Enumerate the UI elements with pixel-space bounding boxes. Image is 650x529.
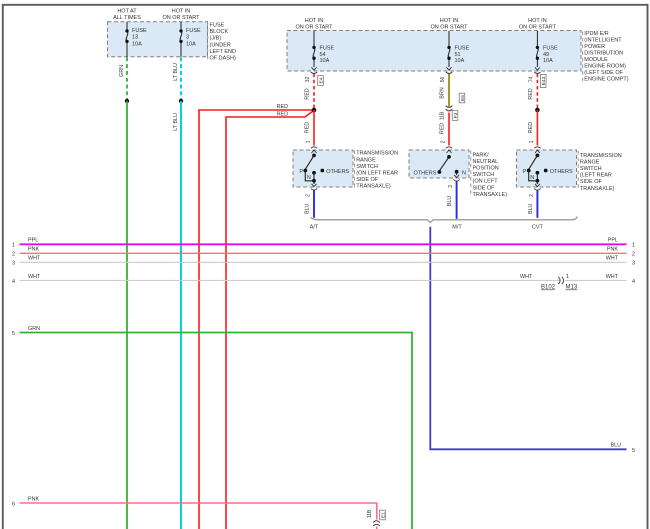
svg-text:(LEFT SIDE OF: (LEFT SIDE OF — [584, 70, 623, 76]
svg-text:TRANSAXLE): TRANSAXLE) — [580, 186, 615, 192]
svg-text:OF DASH): OF DASH) — [210, 56, 236, 62]
svg-text:N: N — [462, 170, 466, 176]
connector B102/M13 on wire 4 — [558, 277, 563, 284]
switch blade A/T — [312, 154, 316, 158]
svg-text:5: 5 — [12, 331, 15, 337]
svg-text:WHT: WHT — [28, 256, 41, 262]
svg-text:OTHERS: OTHERS — [413, 170, 436, 176]
svg-text:HOT IN: HOT IN — [305, 18, 324, 24]
svg-text:E43: E43 — [541, 76, 547, 85]
pin 2 entry symbol M/T — [446, 147, 452, 153]
svg-text:ENGINE COMPT): ENGINE COMPT) — [584, 77, 628, 83]
svg-text:N: N — [530, 175, 534, 181]
svg-text:TRANSAXLE): TRANSAXLE) — [473, 192, 508, 198]
svg-text:E6: E6 — [460, 95, 466, 101]
wire 2 PNK — [20, 252, 627, 254]
wire BRN fuse 51 down — [448, 74, 450, 107]
pin exit symbol fuse 49 — [534, 67, 540, 73]
svg-text:ON OR START: ON OR START — [519, 24, 557, 30]
svg-text:PNK: PNK — [28, 247, 39, 253]
svg-text:TRANSMISSION: TRANSMISSION — [356, 151, 398, 157]
wire 3 WHT — [20, 261, 627, 263]
svg-text:E1: E1 — [380, 512, 386, 518]
svg-text:3: 3 — [448, 185, 454, 188]
wire RED 11B to M/T switch — [448, 113, 450, 146]
svg-text:1: 1 — [632, 243, 635, 249]
svg-text:10A: 10A — [543, 58, 553, 64]
svg-text:2: 2 — [632, 252, 635, 258]
svg-text:B102: B102 — [541, 285, 556, 291]
svg-text:RED: RED — [277, 104, 288, 110]
svg-text:NEUTRAL: NEUTRAL — [473, 159, 499, 165]
wire 6 PNK bottom — [20, 503, 377, 520]
svg-text:SWITCH: SWITCH — [356, 164, 378, 170]
svg-text:BLU: BLU — [528, 203, 534, 214]
svg-text:ENGINE ROOM): ENGINE ROOM) — [584, 64, 626, 70]
svg-text:FUSE: FUSE — [543, 45, 558, 51]
connector E6 box label — [459, 93, 466, 103]
transmission range switch box CVT — [517, 150, 577, 187]
wire RED splice to A/T switch — [313, 110, 315, 146]
wire RED splice to CVT switch — [536, 110, 538, 146]
svg-text:CVT: CVT — [532, 225, 544, 231]
svg-text:GRN: GRN — [28, 326, 40, 332]
transmission range switch CVT label text — [578, 151, 622, 192]
switch blade M/T — [447, 155, 451, 159]
svg-text:BLU: BLU — [447, 196, 453, 207]
svg-text:49: 49 — [543, 52, 549, 58]
wire GRN solid vertical — [126, 101, 128, 529]
connector F3 box label — [452, 111, 459, 121]
svg-text:RED: RED — [305, 88, 311, 99]
svg-text:RED: RED — [528, 122, 534, 133]
svg-text:11B: 11B — [367, 509, 373, 518]
svg-text:HOT IN: HOT IN — [528, 18, 547, 24]
op CVT switch internals — [523, 140, 573, 197]
svg-text:RANGE: RANGE — [580, 159, 600, 165]
wire RED dashed fuse 54 to splice — [313, 74, 315, 111]
node HOT IN ON OR START (fuse 3) — [162, 8, 200, 20]
wire PNK below connector — [376, 527, 378, 529]
park/neutral position switch box M/T — [409, 150, 469, 178]
switch blade CVT — [536, 154, 540, 158]
wire BLU M/T switch to bracket — [456, 181, 458, 219]
fuse F54 — [313, 31, 315, 67]
svg-text:10A: 10A — [455, 58, 465, 64]
svg-text:P: P — [299, 169, 303, 175]
svg-text:RED: RED — [440, 123, 446, 134]
connector E4 box label — [318, 76, 325, 86]
svg-text:N: N — [307, 175, 311, 181]
node HOT AT ALL TIMES — [113, 8, 141, 20]
svg-text:LT BLU: LT BLU — [173, 113, 179, 131]
connector E43 box label — [540, 75, 547, 88]
IPDM E/R box — [287, 31, 581, 72]
pin 2 exit symbol CVT — [534, 184, 540, 190]
transmission range switch A/T label text — [354, 151, 398, 190]
transmission range switch box A/T — [293, 150, 353, 187]
svg-text:ALL TIMES: ALL TIMES — [113, 15, 141, 21]
svg-text:E4: E4 — [318, 77, 324, 83]
wire BLU combined down and right — [430, 227, 626, 449]
svg-text:OTHERS: OTHERS — [550, 169, 573, 175]
svg-text:LT BLU: LT BLU — [173, 63, 179, 81]
fuse F49 — [537, 31, 539, 67]
svg-text:3: 3 — [632, 261, 635, 267]
svg-text:FUSE: FUSE — [210, 23, 225, 29]
svg-text:BLU: BLU — [305, 203, 311, 214]
svg-text:1: 1 — [566, 274, 569, 280]
svg-text:SWITCH: SWITCH — [580, 166, 602, 172]
wire 4 WHT right part — [565, 279, 627, 281]
svg-text:BLU: BLU — [611, 442, 622, 448]
svg-text:WHT: WHT — [520, 274, 533, 280]
wire 1 PPL — [20, 243, 627, 245]
svg-text:(J/B): (J/B) — [210, 36, 222, 42]
svg-text:13: 13 — [132, 35, 138, 41]
svg-text:PPL: PPL — [28, 238, 38, 244]
wire RED branch to x=198.5 down — [199, 110, 314, 529]
svg-text:P: P — [523, 169, 527, 175]
svg-text:(ON LEFT: (ON LEFT — [473, 179, 499, 185]
svg-text:RANGE: RANGE — [356, 157, 376, 163]
pin 1 entry symbol CVT — [534, 147, 540, 153]
svg-text:IPDM E/R: IPDM E/R — [584, 31, 608, 37]
svg-text:74: 74 — [528, 77, 534, 83]
svg-text:11B: 11B — [440, 111, 446, 120]
svg-text:RED: RED — [305, 122, 311, 133]
svg-text:56: 56 — [440, 77, 446, 83]
fuse F13 — [126, 22, 128, 57]
svg-text:SIDE OF: SIDE OF — [356, 177, 379, 183]
wire BLU CVT switch to bracket — [536, 190, 538, 218]
node splice RED CVT — [535, 108, 540, 113]
svg-text:2: 2 — [529, 194, 535, 197]
IPDM E/R label text — [583, 31, 629, 82]
svg-text:SIDE OF: SIDE OF — [580, 179, 603, 185]
wire LT BLU dashed from fuse 3 — [180, 57, 182, 101]
svg-text:POWER: POWER — [584, 44, 605, 50]
node splice RED A/T — [312, 108, 317, 113]
svg-text:FUSE: FUSE — [455, 45, 470, 51]
svg-text:M/T: M/T — [452, 225, 462, 231]
svg-text:1: 1 — [529, 140, 535, 143]
pin 2 exit symbol A/T — [311, 184, 317, 190]
wire 4 WHT left part — [20, 279, 560, 281]
fuse F51 — [448, 31, 450, 67]
svg-text:3: 3 — [12, 261, 15, 267]
svg-text:FUSE: FUSE — [132, 28, 147, 34]
op A/T switch internals — [299, 140, 349, 197]
wire RED branch to x=225.6 down — [226, 111, 313, 529]
svg-text:2: 2 — [12, 252, 15, 258]
svg-text:1: 1 — [306, 140, 312, 143]
svg-text:(UNDER: (UNDER — [210, 42, 231, 48]
svg-text:DISTRIBUTION: DISTRIBUTION — [584, 51, 623, 57]
inline connector on PNK bottom — [373, 521, 380, 526]
svg-text:10A: 10A — [320, 58, 330, 64]
svg-text:GRN: GRN — [119, 65, 125, 77]
svg-text:RED: RED — [277, 111, 288, 117]
svg-text:POSITION: POSITION — [473, 166, 499, 172]
svg-text:FUSE: FUSE — [186, 28, 201, 34]
wire RED dashed fuse 49 to splice — [536, 74, 538, 111]
svg-text:1: 1 — [12, 243, 15, 249]
svg-text:BRN: BRN — [440, 87, 446, 98]
svg-text:F3: F3 — [453, 112, 459, 118]
svg-text:FUSE: FUSE — [320, 45, 335, 51]
wire BLU A/T switch to bracket — [313, 190, 315, 218]
svg-text:BLOCK: BLOCK — [210, 29, 229, 35]
svg-text:PPL: PPL — [608, 238, 618, 244]
svg-text:5: 5 — [632, 448, 635, 454]
svg-text:(ON LEFT REAR: (ON LEFT REAR — [356, 171, 398, 177]
connector E1 box bottom — [380, 510, 387, 520]
svg-text:32: 32 — [305, 77, 311, 83]
svg-text:WHT: WHT — [28, 274, 41, 280]
svg-text:ON OR START: ON OR START — [295, 24, 333, 30]
fuse F3 — [180, 22, 182, 57]
wire GRN dashed from fuse 13 — [126, 57, 128, 101]
svg-text:TRANSMISSION: TRANSMISSION — [580, 153, 622, 159]
inline connector BRN/RED — [446, 106, 453, 111]
svg-text:3: 3 — [186, 35, 189, 41]
svg-text:(INTELLIGENT: (INTELLIGENT — [584, 38, 622, 44]
svg-text:10A: 10A — [132, 41, 142, 47]
svg-text:PNK: PNK — [607, 247, 618, 253]
svg-text:SIDE OF: SIDE OF — [473, 185, 496, 191]
node HOT IN ON OR START (fuse 49) — [519, 18, 557, 31]
wire 5 GRN horizontal then down — [20, 333, 413, 529]
svg-text:A/T: A/T — [310, 225, 319, 231]
svg-text:6: 6 — [12, 502, 15, 508]
svg-text:2: 2 — [306, 194, 312, 197]
svg-text:4: 4 — [632, 279, 635, 285]
svg-text:HOT AT: HOT AT — [117, 8, 137, 14]
fuse block J/B box — [108, 22, 208, 57]
pin 1 entry symbol A/T — [311, 147, 317, 153]
svg-text:MODULE: MODULE — [584, 57, 608, 63]
svg-text:51: 51 — [455, 52, 461, 58]
pin 3 exit symbol M/T — [453, 175, 459, 181]
pin exit symbol fuse 54 — [311, 67, 317, 73]
wire LT BLU solid vertical — [180, 101, 182, 529]
fuse block J/B label text — [208, 23, 236, 62]
svg-text:HOT IN: HOT IN — [440, 18, 459, 24]
pin exit symbol fuse 51 — [446, 67, 452, 73]
svg-text:ON OR START: ON OR START — [430, 24, 468, 30]
svg-text:LEFT END: LEFT END — [210, 49, 237, 55]
svg-text:(LEFT REAR: (LEFT REAR — [580, 173, 612, 179]
op M/T switch internals — [413, 140, 466, 188]
svg-text:OTHERS: OTHERS — [326, 169, 349, 175]
svg-text:RED: RED — [528, 88, 534, 99]
svg-text:ON OR START: ON OR START — [162, 15, 200, 21]
svg-text:10A: 10A — [186, 41, 196, 47]
svg-text:4: 4 — [12, 279, 15, 285]
node HOT IN ON OR START (fuse 54) — [295, 18, 333, 31]
svg-text:WHT: WHT — [606, 256, 619, 262]
svg-text:SWITCH: SWITCH — [473, 172, 495, 178]
svg-text:2: 2 — [441, 140, 447, 143]
svg-text:PNK: PNK — [28, 497, 39, 503]
node splice on LT BLU — [179, 99, 183, 103]
svg-text:54: 54 — [320, 52, 326, 58]
park/neutral position switch label text — [471, 151, 507, 198]
svg-text:TRANSAXLE): TRANSAXLE) — [356, 184, 391, 190]
node HOT IN ON OR START (fuse 51) — [430, 18, 468, 31]
svg-text:WHT: WHT — [606, 274, 619, 280]
node splice on GRN — [125, 99, 129, 103]
bracket A/T M/T CVT merge — [311, 217, 578, 223]
svg-text:PARK/: PARK/ — [473, 152, 490, 158]
svg-text:M13: M13 — [566, 285, 578, 291]
svg-text:HOT IN: HOT IN — [172, 8, 191, 14]
